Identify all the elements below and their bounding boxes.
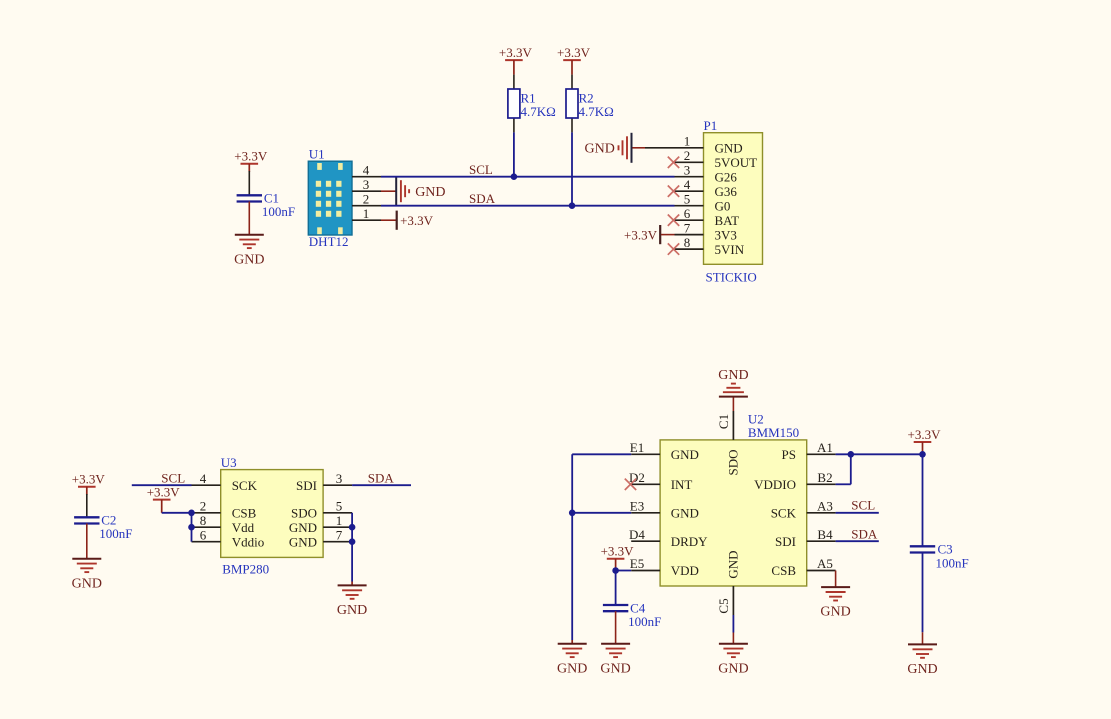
pin U1.2 [352, 205, 381, 207]
svg-text:SCL: SCL [469, 162, 493, 177]
svg-text:3: 3 [363, 177, 370, 192]
pin P1.7 [675, 234, 704, 236]
wire R2 to SDA [571, 132, 573, 205]
svg-text:+3.3V: +3.3V [400, 213, 434, 228]
wire U2.E3 left [572, 512, 631, 514]
ground (C1) [234, 235, 264, 268]
svg-text:DRDY: DRDY [671, 534, 708, 549]
wire left gnd stub [571, 640, 573, 644]
ground (C4) [600, 644, 630, 677]
svg-text:SCK: SCK [771, 506, 797, 521]
wire C2 plate to +3.3V [86, 494, 88, 517]
no-connect X U2.D2 [625, 479, 636, 490]
ground (U1 pin3) [396, 177, 445, 205]
pin U2.A3 [807, 512, 836, 514]
svg-text:3V3: 3V3 [715, 227, 737, 242]
wire U2.A1 to +3.3V [836, 453, 923, 455]
svg-text:7: 7 [684, 220, 691, 235]
pin U3.4 [192, 484, 221, 486]
pin U2.C5 [732, 586, 734, 615]
wire net SDA from U3.3 [352, 484, 411, 486]
svg-text:GND: GND [820, 605, 850, 620]
wire U1.1 to +3.3V [381, 219, 396, 221]
svg-text:+3.3V: +3.3V [624, 227, 658, 242]
wire to P1.1 pin [645, 147, 675, 149]
ground (U2 left) [557, 644, 587, 677]
svg-text:+3.3V: +3.3V [499, 45, 533, 60]
svg-text:C4: C4 [630, 600, 646, 615]
wire +3.3V stub right [922, 442, 924, 454]
wire GND flag to P1.1 [632, 147, 645, 149]
svg-text:VDD: VDD [671, 563, 699, 578]
junction U3.2 [188, 510, 195, 517]
svg-text:B2: B2 [817, 470, 832, 485]
junction U3.7 [349, 538, 356, 545]
wire U3 gnd vertical [351, 513, 353, 582]
resistor R2 [566, 75, 614, 133]
svg-text:4: 4 [684, 177, 691, 192]
svg-text:+3.3V: +3.3V [234, 149, 268, 164]
svg-text:GND: GND [72, 576, 102, 591]
power +3.3V (R1 top) [499, 45, 533, 75]
wire C1 top plate to +3.3V [248, 171, 250, 195]
wire +3.3V flag to P1.7 [661, 234, 675, 236]
svg-text:2: 2 [684, 148, 691, 163]
junction A1/B2 [848, 451, 855, 458]
pin P1.5 [675, 205, 704, 207]
svg-text:C5: C5 [716, 598, 731, 613]
svg-text:100nF: 100nF [936, 555, 969, 570]
svg-text:5VOUT: 5VOUT [715, 155, 758, 170]
svg-text:GND: GND [585, 142, 615, 157]
svg-text:Vdd: Vdd [232, 520, 255, 535]
svg-text:GND: GND [715, 141, 743, 156]
svg-text:GND: GND [337, 603, 367, 618]
svg-text:5: 5 [684, 191, 691, 206]
svg-text:D4: D4 [629, 527, 645, 542]
pin U2.E1 [631, 453, 660, 455]
svg-text:P1: P1 [704, 118, 718, 133]
svg-text:4: 4 [363, 162, 370, 177]
svg-text:STICKIO: STICKIO [706, 270, 757, 285]
svg-text:2: 2 [363, 191, 370, 206]
wire net SCL at U2.A3 [836, 512, 879, 514]
svg-text:SCL: SCL [851, 498, 875, 513]
no-connect X P1.4 [668, 186, 679, 197]
svg-text:5: 5 [336, 499, 343, 514]
svg-text:G36: G36 [715, 184, 738, 199]
svg-text:G26: G26 [715, 169, 738, 184]
svg-text:B4: B4 [817, 527, 833, 542]
svg-text:BAT: BAT [715, 213, 740, 228]
svg-text:BMM150: BMM150 [748, 425, 799, 440]
svg-text:BMP280: BMP280 [222, 562, 269, 577]
capacitor C4 [603, 600, 661, 629]
svg-text:6: 6 [200, 527, 207, 542]
pin U3.1 [323, 526, 352, 528]
pin U2.C1 [732, 411, 734, 440]
svg-text:SCL: SCL [161, 471, 185, 486]
svg-text:100nF: 100nF [628, 614, 661, 629]
svg-text:GND: GND [557, 661, 587, 676]
svg-text:2: 2 [200, 499, 207, 514]
pin U2.D2 [631, 483, 660, 485]
resistor R1 [508, 75, 556, 133]
svg-text:GND: GND [907, 662, 937, 677]
svg-text:+3.3V: +3.3V [72, 472, 106, 487]
svg-text:C2: C2 [101, 512, 116, 527]
wire C4 to GND [615, 611, 617, 644]
wire net SCL top [381, 176, 675, 178]
svg-text:SCK: SCK [232, 478, 258, 493]
pin P1.3 [675, 176, 704, 178]
power +3.3V (C1 top) [234, 149, 268, 172]
svg-text:A3: A3 [817, 499, 833, 514]
svg-text:GND: GND [718, 661, 748, 676]
pin P1.4 [675, 190, 704, 192]
ground (C2) [72, 559, 102, 592]
wire net SCL to U3.4 [132, 484, 192, 486]
wire U2.A5 to GND [835, 571, 837, 588]
no-connect X P1.6 [668, 215, 679, 226]
svg-text:+3.3V: +3.3V [601, 544, 635, 559]
wire A1-B2 vertical [850, 454, 852, 484]
wire C3 down [922, 553, 924, 633]
pin U3.2 [192, 512, 221, 514]
wire U2.C5 gnd stub [732, 633, 734, 644]
pin U3.6 [192, 541, 221, 543]
no-connect X P1.2 [668, 157, 679, 168]
ground (U2 top) [718, 368, 748, 397]
wire U1.3 to GND [381, 190, 396, 192]
pin U2.E5 [631, 570, 660, 572]
svg-text:SDA: SDA [469, 191, 496, 206]
power +3.3V (P1 pin7) [624, 225, 660, 244]
svg-text:+3.3V: +3.3V [908, 427, 942, 442]
pin U3.8 [192, 526, 221, 528]
pin P1.1 [675, 147, 704, 149]
svg-text:CSB: CSB [232, 506, 257, 521]
svg-text:SDA: SDA [368, 471, 395, 486]
svg-text:+3.3V: +3.3V [147, 484, 181, 499]
svg-text:5VIN: 5VIN [715, 242, 745, 257]
svg-text:GND: GND [718, 368, 748, 383]
pin U2.B2 [807, 483, 836, 485]
svg-text:CSB: CSB [771, 563, 796, 578]
svg-text:1: 1 [684, 134, 691, 149]
svg-text:4.7KΩ: 4.7KΩ [579, 104, 614, 119]
wire U3 gnd stub [351, 582, 353, 586]
wire net SDA top [381, 205, 675, 207]
pin U1.4 [352, 176, 381, 178]
svg-text:E1: E1 [630, 440, 644, 455]
svg-text:+3.3V: +3.3V [557, 45, 591, 60]
pin U2.B4 [807, 540, 836, 542]
no-connect X P1.8 [668, 243, 679, 254]
svg-text:G0: G0 [715, 198, 731, 213]
IC U1 DHT12 [308, 161, 352, 235]
wire U2.E1 left [572, 453, 631, 455]
svg-text:E3: E3 [630, 499, 644, 514]
svg-text:SDO: SDO [726, 449, 741, 475]
svg-text:VDDIO: VDDIO [754, 477, 796, 492]
svg-text:SDA: SDA [851, 526, 878, 541]
svg-text:100nF: 100nF [262, 204, 295, 219]
power +3.3V (U2 VDD) [601, 544, 635, 559]
junction VDD junction [612, 567, 619, 574]
junction U2.E3 [569, 510, 576, 517]
wire to U2.E5 [616, 570, 632, 572]
svg-text:A1: A1 [817, 440, 833, 455]
wire U2.C5 down [732, 615, 734, 633]
wire U2.C1 to GND [732, 397, 734, 411]
svg-text:1: 1 [336, 513, 343, 528]
svg-text:GND: GND [726, 550, 741, 578]
power +3.3V (R2 top) [557, 45, 591, 75]
junction U3.8 [188, 524, 195, 531]
svg-text:A5: A5 [817, 556, 833, 571]
wire to U2.B2 [836, 483, 851, 485]
svg-text:GND: GND [600, 661, 630, 676]
svg-text:C1: C1 [716, 414, 731, 429]
svg-text:GND: GND [671, 447, 699, 462]
svg-text:DHT12: DHT12 [309, 234, 349, 249]
svg-text:GND: GND [289, 534, 317, 549]
svg-text:8: 8 [684, 235, 691, 250]
svg-text:C3: C3 [938, 542, 953, 557]
svg-text:GND: GND [234, 252, 264, 267]
pin P1.2 [675, 161, 704, 163]
ground (C3) [907, 644, 937, 677]
ground (U2 A5) [820, 587, 850, 620]
svg-text:PS: PS [782, 447, 796, 462]
pin U3.3 [323, 484, 352, 486]
ground (U3) [337, 585, 367, 618]
pin P1.8 [675, 248, 704, 250]
pin P1.6 [675, 219, 704, 221]
svg-text:6: 6 [684, 206, 691, 221]
wire C3 gnd stub [922, 632, 924, 644]
junction SCL/R1 [511, 173, 518, 180]
ground (P1 pin1) [585, 133, 632, 163]
svg-text:1: 1 [363, 206, 370, 221]
pin U3.7 [323, 541, 352, 543]
junction SDA/R2 [569, 202, 576, 209]
wire R1 to SCL [513, 132, 515, 176]
wire U3 power vertical [191, 513, 193, 542]
wire C1 bottom plate to GND [248, 202, 250, 235]
capacitor C2 [74, 512, 132, 541]
svg-text:4.7KΩ: 4.7KΩ [521, 104, 556, 119]
pin U2.D4 [631, 540, 660, 542]
svg-text:C1: C1 [264, 190, 279, 205]
wire to C4 [615, 571, 617, 606]
svg-text:3: 3 [684, 162, 691, 177]
ground (U2 bottom) [718, 644, 748, 677]
svg-text:INT: INT [671, 477, 693, 492]
wire down to C3 [922, 454, 924, 546]
pin U1.3 [352, 190, 381, 192]
svg-text:SDO: SDO [291, 506, 317, 521]
capacitor C3 [910, 542, 969, 571]
svg-text:100nF: 100nF [99, 526, 132, 541]
wire net SDA at U2.B4 [836, 540, 879, 542]
svg-text:3: 3 [336, 471, 343, 486]
svg-text:SDI: SDI [775, 534, 796, 549]
wire left gnd vertical [571, 454, 573, 640]
pin U2.A5 [807, 570, 836, 572]
wire +3.3V stub VDD [615, 559, 617, 571]
svg-text:GND: GND [671, 506, 699, 521]
connector P1 STICKIO [704, 133, 763, 265]
svg-text:GND: GND [289, 520, 317, 535]
IC U3 BMP280 [221, 470, 323, 558]
wire +3.3V stub U3 [161, 500, 163, 513]
pin U1.1 [352, 219, 381, 221]
power +3.3V (U1 pin1) [397, 211, 434, 230]
junction U3.1 [349, 524, 356, 531]
svg-text:U3: U3 [221, 455, 237, 470]
pin U3.5 [323, 512, 352, 514]
capacitor C1 [237, 190, 296, 219]
pin U2.E3 [631, 512, 660, 514]
svg-text:U1: U1 [309, 147, 325, 162]
svg-text:GND: GND [415, 185, 445, 200]
svg-text:4: 4 [200, 471, 207, 486]
svg-text:7: 7 [336, 527, 343, 542]
power +3.3V (U2 right) [908, 427, 942, 442]
pin U2.A1 [807, 453, 836, 455]
IC U2 BMM150 [660, 440, 807, 586]
wire C2 to GND [86, 524, 88, 559]
power +3.3V (U3) [147, 484, 181, 499]
junction +3.3V/C3 [919, 451, 926, 458]
svg-text:Vddio: Vddio [232, 534, 265, 549]
svg-text:8: 8 [200, 513, 207, 528]
svg-text:SDI: SDI [296, 478, 317, 493]
wire +3.3V to U3.2 [162, 512, 192, 514]
power +3.3V (C2 top) [72, 472, 106, 495]
